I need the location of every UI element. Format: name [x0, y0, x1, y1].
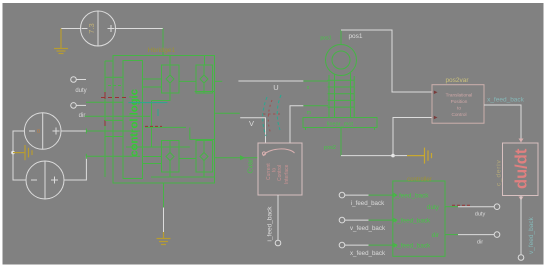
pin arrow in1: [434, 91, 438, 95]
svg-text:pos2: pos2: [324, 145, 336, 151]
svg-text:v_feed_back: v_feed_back: [350, 225, 386, 232]
transistor Q3: [162, 141, 180, 173]
wire pos1: [341, 30, 432, 92]
motor ring: [303, 30, 377, 130]
pin arrow Cvar: [240, 155, 245, 160]
wire supply drop: [162, 29, 164, 56]
svg-text:Control: Control: [451, 112, 466, 117]
wire gap a: [105, 76, 123, 78]
annotation arc red: [268, 100, 272, 134]
wire dir: [76, 104, 86, 106]
svg-text:c_deriv: c_deriv: [496, 159, 503, 186]
left rail: [104, 61, 106, 177]
wire V2 right: [61, 130, 86, 132]
motor neck: [328, 75, 330, 118]
block controller: [393, 181, 445, 256]
rail top link: [105, 60, 113, 62]
pin arrows controller: [393, 193, 398, 198]
port i_feed_back: [275, 240, 281, 246]
ground G2 (rotated): [13, 145, 32, 160]
subsystem Hbridge1 outer box: [113, 56, 215, 184]
svg-text:7.3: 7.3: [87, 23, 96, 33]
motor stem: [340, 30, 342, 45]
annotation arc teal 1: [263, 97, 267, 136]
block Cvar: [258, 143, 302, 195]
block pos2var: [432, 85, 484, 124]
port duty: [71, 77, 77, 83]
wire mid rail: [145, 126, 186, 128]
wire V1 left: [61, 28, 81, 30]
svg-text:Cvar: Cvar: [248, 158, 255, 173]
wire v_feed_back: [520, 196, 522, 255]
svg-text:linear_mot: linear_mot: [327, 121, 354, 127]
wire V1 right to bridge: [116, 28, 164, 30]
wire dir out: [445, 234, 458, 236]
ground G3: [157, 232, 171, 245]
svg-text:i_feed_back: i_feed_back: [351, 200, 385, 207]
svg-text:dir: dir: [477, 240, 483, 246]
wire V: [240, 118, 265, 143]
svg-text:controller: controller: [407, 177, 432, 183]
wire duty: [76, 79, 86, 81]
wire duty stub green: [108, 85, 123, 87]
wire V2 left: [13, 131, 26, 180]
wire enable green: [85, 115, 151, 117]
drain stub Q1: [169, 56, 171, 66]
svg-text:pos1: pos1: [320, 36, 331, 42]
wire pos2: [341, 118, 432, 156]
svg-text:i_feed_back: i_feed_back: [394, 192, 429, 199]
port v_feed_back in: [339, 217, 345, 223]
ground G4 (rotated): [407, 148, 432, 164]
control logic box U1: [123, 61, 143, 179]
voltage source V2 (0): [24, 113, 61, 150]
transistor Q2: [196, 65, 213, 93]
wire mid link: [189, 127, 191, 139]
wire pos2 stem: [340, 128, 342, 156]
svg-text:Hbridge1: Hbridge1: [148, 47, 176, 54]
wire V green stub: [215, 112, 240, 114]
svg-text:Control: Control: [277, 165, 283, 181]
svg-text:to: to: [457, 106, 461, 111]
svg-text:duty: duty: [75, 88, 86, 94]
node pos2 junction: [391, 154, 395, 158]
wire bottom rail: [151, 176, 214, 178]
ground G1: [54, 29, 68, 54]
wire Q3 drop: [169, 172, 171, 177]
svg-text:duty: duty: [427, 204, 440, 211]
wire low rail: [126, 146, 190, 148]
controller pin labels: [394, 192, 440, 249]
svg-text:x_feed_back: x_feed_back: [394, 242, 431, 249]
svg-text:dir: dir: [432, 232, 440, 239]
port duty out: [494, 204, 500, 210]
svg-text:0: 0: [37, 129, 40, 135]
svg-text:v_feed_back: v_feed_back: [394, 217, 431, 224]
svg-text:i_feed_back: i_feed_back: [267, 206, 274, 242]
bridge internals: [126, 56, 215, 178]
svg-text:V: V: [249, 119, 254, 128]
wire mid vertical: [151, 101, 153, 148]
wire U: [238, 80, 303, 82]
red dashes near V corner: [263, 113, 280, 115]
svg-text:du/dt: du/dt: [513, 148, 531, 189]
pin arrow in2: [434, 116, 438, 120]
drain stub Q2: [204, 56, 206, 66]
annotation arc teal 2: [277, 95, 281, 130]
svg-text:Interface: Interface: [284, 164, 290, 184]
wire Q1 source drop: [152, 93, 171, 101]
wire gate Q4: [179, 158, 196, 160]
wire gate red: [101, 97, 128, 99]
wire gap b: [105, 119, 123, 121]
red dashes mid: [145, 125, 162, 127]
svg-text:x_feed_back: x_feed_back: [350, 250, 386, 257]
wire Q2 source: [195, 91, 215, 93]
voltage source V1 (7.3): [81, 11, 116, 46]
transistor Q1: [162, 65, 180, 93]
wire bridge to Cvar: [215, 157, 259, 159]
node left junction: [11, 151, 15, 155]
wire mid right: [190, 139, 215, 141]
wire V3 right: [64, 156, 86, 180]
pin arrow du/dt out: [519, 197, 524, 201]
port v_feed_back: [518, 255, 524, 261]
wire dir green: [86, 101, 123, 103]
svg-text:Position: Position: [451, 99, 468, 104]
svg-text:pos2var: pos2var: [445, 77, 469, 84]
wire i_feed_back: [277, 195, 279, 240]
port x_feed_back in: [339, 242, 345, 248]
port i_feed_back in: [339, 192, 345, 198]
wire duty out: [445, 206, 458, 208]
wire U green stub: [215, 80, 223, 82]
wire gate Q1: [143, 78, 162, 80]
rail red marks: [104, 92, 106, 126]
wire x_feed_back: [484, 105, 521, 141]
svg-text:x_feed_back: x_feed_back: [487, 97, 525, 104]
port dir: [71, 103, 77, 109]
voltage source V3: [26, 161, 64, 199]
wire gap c: [105, 136, 123, 138]
wire mid teal: [128, 102, 167, 104]
wire U green: [303, 80, 328, 82]
pin arrow du/dt in: [519, 139, 524, 143]
svg-text:pos1: pos1: [348, 33, 362, 40]
wire Q4 drop: [203, 172, 205, 177]
teal tick: [157, 109, 159, 116]
motor ladder rungs: [328, 79, 355, 81]
svg-text:U: U: [273, 83, 278, 92]
block pos2var text: [446, 93, 473, 118]
svg-text:duty: duty: [475, 212, 486, 218]
wire bridge center tap: [163, 183, 165, 208]
port dir out: [494, 232, 500, 238]
Cvar arc: [263, 149, 295, 156]
motor base box: [303, 118, 377, 128]
transistor Q4: [196, 141, 213, 173]
svg-text:Translational: Translational: [446, 93, 473, 98]
wire gate Q3: [143, 156, 162, 158]
svg-text:dir: dir: [79, 113, 86, 119]
wire motor pin2: [290, 106, 303, 143]
wire to ground: [393, 155, 407, 157]
svg-text:m: m: [307, 110, 311, 116]
block Cvar text: [266, 163, 290, 184]
block du/dt: [503, 143, 539, 196]
svg-text:v_feed_back: v_feed_back: [528, 216, 535, 254]
wire gate Q2: [179, 80, 196, 82]
